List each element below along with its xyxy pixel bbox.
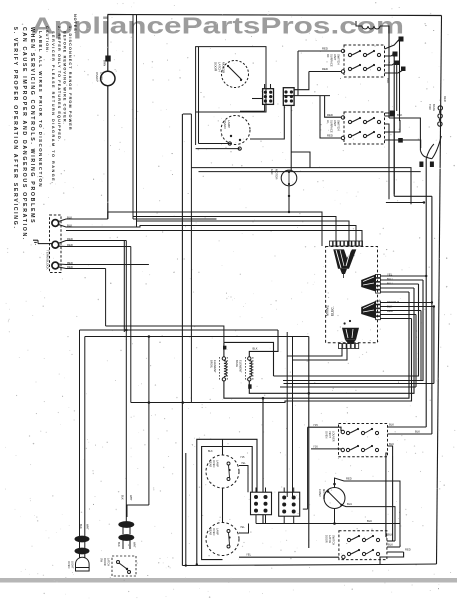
svg-text:BLK: BLK (79, 524, 82, 529)
svg-text:BLK: BLK (415, 430, 420, 434)
svg-text:YEL: YEL (387, 272, 393, 276)
svg-text:MOTOR: MOTOR (222, 62, 226, 74)
long BLK wire under grids (256, 523, 400, 525)
thermal breaker on right border (438, 106, 442, 110)
svg-text:BLK: BLK (388, 543, 393, 547)
svg-text:OVEN: OVEN (223, 120, 227, 129)
svg-text:MOTOR: MOTOR (322, 489, 326, 499)
svg-text:WHEN SERVICING CONTROLS. WIRIN: WHEN SERVICING CONTROLS. WIRING PROBLEMS (29, 27, 35, 224)
svg-text:LATCH: LATCH (107, 558, 110, 566)
svg-text:LIGHT: LIGHT (71, 561, 75, 569)
SW1 exits right (385, 39, 400, 49)
svg-text:RED: RED (322, 67, 328, 71)
svg-text:RED: RED (67, 265, 73, 269)
element terminal stubs top right (388, 33, 390, 118)
broil element R1 (219, 357, 221, 380)
SW3 entry wires (308, 427, 341, 431)
svg-text:CONV: CONV (318, 489, 322, 497)
wire to conv motor / grids (262, 398, 264, 492)
oven lamp (door lamp) (101, 71, 115, 85)
long wire y167 (191, 168, 411, 205)
svg-text:NOTES:: NOTES: (73, 14, 77, 34)
svg-text:LAMP: LAMP (227, 120, 231, 128)
svg-text:RED: RED (67, 237, 73, 241)
svg-text:RED: RED (327, 134, 333, 138)
svg-text:YEL: YEL (240, 526, 245, 529)
svg-text:BLK: BLK (253, 347, 258, 351)
convection motor M1 (324, 488, 345, 509)
svg-text:RED: RED (327, 113, 333, 117)
svg-text:BROIL: BROIL (210, 360, 214, 369)
wires down from U1 bottom (287, 349, 342, 357)
nested loop wires around lamps (197, 439, 257, 564)
svg-text:1. DISCONNECT RANGE FROM POWER: 1. DISCONNECT RANGE FROM POWER (68, 26, 72, 131)
svg-text:BLK: BLK (387, 305, 392, 309)
harness connector grid A (263, 89, 274, 105)
wire trunk L2 (136, 15, 138, 227)
wire to plug grid P2 (286, 356, 288, 497)
svg-text:DOOR: DOOR (214, 62, 218, 72)
oven selector switch SW3 (339, 424, 388, 457)
motor wires (335, 478, 401, 547)
svg-text:LAMP: LAMP (216, 460, 220, 467)
wires into SW2 (325, 96, 341, 118)
plug grid P3 (251, 492, 272, 515)
svg-text:MOTOR: MOTOR (275, 169, 279, 179)
svg-text:RF: RF (326, 54, 330, 58)
svg-text:MV/M2: MV/M2 (326, 305, 330, 316)
svg-text:UNIT: UNIT (333, 120, 337, 127)
notes text (rotated) (12, 14, 77, 241)
svg-text:RED/WHT: RED/WHT (387, 300, 400, 304)
wire left supply upper (107, 15, 109, 72)
door latch motor box (196, 47, 266, 112)
svg-text:ELEMENT: ELEMENT (238, 360, 242, 373)
svg-text:RED: RED (405, 548, 411, 552)
long right verticals (425, 159, 427, 427)
svg-text:BAKE: BAKE (432, 104, 436, 111)
svg-text:LABEL ALL WIRES PRIOR TO DISCO: LABEL ALL WIRES PRIOR TO DISCONNECTION (38, 31, 43, 188)
svg-text:SW: SW (100, 558, 103, 563)
watermark bottom sliver (0, 578, 457, 583)
U1 top connector P1 (329, 241, 332, 246)
svg-text:WHT: WHT (129, 495, 132, 501)
svg-text:RED: RED (67, 243, 73, 247)
wire top supply (108, 15, 442, 16)
wires into SW1 (298, 50, 341, 52)
electronic range control U1 (326, 247, 378, 343)
svg-text:UNIT: UNIT (333, 54, 337, 61)
svg-text:TERM BLOCK: TERM BLOCK (46, 250, 50, 270)
svg-text:BLK: BLK (67, 223, 72, 227)
svg-text:OVEN: OVEN (67, 561, 71, 568)
svg-text:BLK: BLK (208, 450, 213, 453)
svg-text:ELEC.: ELEC. (331, 306, 335, 316)
wire trunk L1 (132, 15, 134, 219)
lamp right stubs (239, 466, 248, 493)
wedge slits (336, 250, 341, 268)
big bottom wire (182, 564, 436, 566)
svg-text:REAR: REAR (209, 460, 213, 467)
latch motor dashed circle (222, 61, 249, 88)
surface switch SW1 (top) (344, 45, 385, 77)
svg-text:SWITCH: SWITCH (337, 54, 341, 65)
svg-text:CAN CAUSE IMPROPER AND DANGERO: CAN CAUSE IMPROPER AND DANGEROUS OPERATI… (21, 27, 27, 241)
svg-text:CAUTION:: CAUTION: (45, 26, 49, 53)
oven lamp (221, 116, 250, 145)
U1 right connector CN3 (376, 301, 381, 304)
svg-text:Y16: Y16 (313, 445, 318, 449)
wire bundle mid (108, 212, 322, 246)
svg-text:VENT: VENT (328, 431, 332, 438)
svg-text:SWITCH: SWITCH (337, 120, 341, 131)
svg-text:LATCH: LATCH (218, 62, 222, 72)
svg-text:SURFACE: SURFACE (330, 54, 334, 67)
latch switch small dashed box (112, 556, 136, 576)
svg-text:TOD: TOD (428, 104, 432, 110)
svg-text:REAR: REAR (209, 528, 213, 535)
plug grid P2 (279, 492, 300, 516)
svg-text:YEL: YEL (241, 462, 246, 465)
svg-text:SWITCH: SWITCH (332, 535, 336, 545)
svg-text:LF: LF (326, 120, 330, 123)
svg-text:SERVICER PLEASE RETURN DIAGRAM: SERVICER PLEASE RETURN DIAGRAM TO RANGE, (51, 31, 55, 185)
right mid link wires (389, 118, 420, 150)
SW4 exits right (386, 536, 387, 538)
svg-text:RED: RED (443, 96, 447, 102)
bake element R2 (245, 357, 247, 380)
harness connector grid B (283, 88, 294, 106)
svg-text:BLU: BLU (347, 502, 352, 506)
svg-text:BLK: BLK (67, 215, 72, 219)
oven light bulb (76, 557, 90, 571)
svg-text:RED: RED (322, 47, 328, 51)
svg-text:OVEN: OVEN (325, 431, 329, 438)
svg-text:LAMP: LAMP (216, 528, 220, 535)
svg-text:LATCH: LATCH (328, 535, 332, 543)
wire elbow to lower mid (131, 402, 192, 404)
P2 to SW3 vertical (307, 427, 309, 509)
svg-text:Y15: Y15 (240, 456, 245, 459)
SW2 exits right (385, 116, 395, 194)
wire from term to bundle (105, 269, 107, 327)
svg-text:BLU: BLU (387, 277, 392, 281)
svg-text:BLK: BLK (117, 542, 120, 547)
svg-text:LAMP: LAMP (100, 72, 104, 80)
wire L2 to SW4 (239, 556, 339, 558)
svg-text:Y15: Y15 (313, 423, 318, 427)
junction blob on left border (105, 56, 110, 62)
wire bundle lower-left (106, 326, 224, 342)
ground symbol (38, 243, 52, 245)
svg-text:WHT: WHT (133, 542, 136, 548)
svg-text:BAKE: BAKE (235, 360, 239, 367)
svg-text:BLK: BLK (367, 519, 372, 523)
svg-text:FAN: FAN (270, 169, 274, 174)
svg-text:BLK: BLK (121, 495, 124, 500)
svg-text:AppliancePartsPros.com: AppliancePartsPros.com (31, 13, 404, 39)
wire bottom right (379, 561, 381, 565)
oven lamp rear L1 (206, 455, 239, 488)
svg-text:5. VERIFY PROPER OPERATION AFT: 5. VERIFY PROPER OPERATION AFTER SERVICI… (12, 27, 18, 230)
oven lamp rear L2 (206, 523, 239, 556)
svg-text:2. REFER ONLY TO FEATURES EQUI: 2. REFER ONLY TO FEATURES EQUIPPED. (57, 26, 61, 142)
cooling fan motor (281, 170, 297, 186)
wire left supply lower (107, 86, 109, 219)
door latch switch SW4 (339, 531, 387, 560)
terminal block TB1 (50, 215, 62, 273)
svg-text:OVEN: OVEN (95, 72, 99, 81)
U1 right connector CN2 (376, 274, 381, 277)
svg-text:SURFACE: SURFACE (330, 120, 334, 133)
wire to oven door switch (181, 114, 183, 566)
svg-text:BLU: BLU (387, 282, 392, 286)
wire right supply (437, 16, 442, 565)
wire element top right (249, 330, 278, 357)
svg-text:BEFORE REMOVING WIRE COVER.: BEFORE REMOVING WIRE COVER. (63, 31, 67, 125)
svg-text:YEL: YEL (246, 553, 252, 557)
small coil element top (362, 26, 380, 29)
wires from terminal block (59, 219, 108, 222)
P1 fan wedge (333, 249, 356, 268)
svg-text:OVEN: OVEN (212, 528, 216, 535)
svg-text:BLK: BLK (389, 442, 394, 446)
surface switch SW2 (344, 112, 385, 144)
CN2 wires out (425, 275, 427, 277)
SW3 exits right (388, 426, 427, 428)
svg-text:OVEN: OVEN (212, 460, 216, 467)
svg-text:RED: RED (346, 477, 352, 481)
svg-text:BLK: BLK (389, 423, 394, 427)
U1 bottom connector (339, 344, 342, 349)
svg-text:RED: RED (387, 309, 393, 313)
bottom right vertical bundle (385, 460, 387, 537)
wire element top left (224, 342, 274, 376)
svg-text:DOOR: DOOR (325, 535, 329, 543)
svg-text:WHT: WHT (86, 524, 89, 530)
svg-text:ELEMENT: ELEMENT (213, 360, 217, 373)
lamp chain wires (222, 439, 224, 455)
svg-text:LOUVER: LOUVER (332, 431, 336, 442)
wire fan lower right (274, 284, 419, 376)
